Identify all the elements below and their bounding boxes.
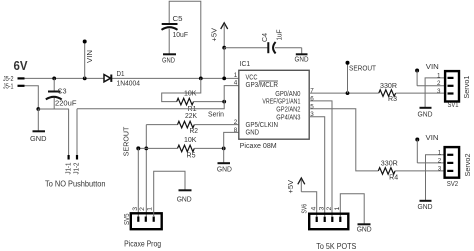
- svg-text:GND: GND: [418, 112, 433, 119]
- svg-text:SV5: SV5: [124, 213, 131, 225]
- svg-text:J5-2: J5-2: [3, 76, 14, 83]
- wire IC pin8 to GND: [224, 132, 239, 162]
- node SEROUT label point (lower): [124, 126, 141, 217]
- svg-text:SEROUT: SEROUT: [124, 126, 131, 156]
- svg-text:2: 2: [438, 157, 442, 164]
- svg-text:VIN: VIN: [426, 64, 439, 71]
- pin 2 number: [234, 119, 238, 126]
- wire R2 node down to SV5 pin2: [145, 125, 147, 217]
- svg-text:GP2/AN2: GP2/AN2: [276, 107, 300, 114]
- svg-text:SV1: SV1: [448, 102, 459, 109]
- ground (IC pin8): [217, 163, 232, 173]
- capacitor C4 1uF: [262, 30, 302, 54]
- svg-text:GND: GND: [162, 57, 175, 64]
- ground (J5/C3): [30, 131, 47, 143]
- svg-text:3: 3: [318, 206, 325, 210]
- svg-text:J5-1: J5-1: [3, 84, 14, 91]
- svg-text:GND: GND: [217, 167, 232, 174]
- pin 7 number: [310, 88, 314, 95]
- wire 6V rail: [25, 77, 239, 79]
- IC1 Picaxe 08M: [239, 61, 309, 150]
- svg-text:D1: D1: [117, 71, 125, 78]
- svg-text:10K: 10K: [184, 90, 197, 97]
- svg-text:2: 2: [437, 80, 441, 87]
- svg-text:C5: C5: [173, 16, 183, 23]
- connector J1-2: [74, 155, 81, 175]
- pin 1 number: [234, 72, 238, 79]
- svg-text:Servo1: Servo1: [464, 75, 471, 98]
- wire IC pin3 to SV6 pin3: [309, 117, 325, 217]
- svg-text:1N4004: 1N4004: [117, 81, 141, 88]
- node VIN junction on rail: [83, 77, 87, 81]
- svg-text:C4: C4: [262, 33, 269, 42]
- wire +5V to SV6 pin4: [301, 192, 316, 217]
- pin 3 number: [310, 111, 314, 118]
- svg-text:VCC: VCC: [246, 74, 258, 81]
- svg-text:Picaxe 08M: Picaxe 08M: [240, 143, 277, 150]
- node C3 junction on rail: [52, 77, 56, 81]
- svg-text:1uF: 1uF: [277, 30, 284, 41]
- pin 5 number: [310, 103, 314, 110]
- wire ground bus to J1-1: [38, 109, 68, 156]
- svg-text:3: 3: [437, 88, 441, 95]
- node SEROUT label point (top): [346, 61, 377, 93]
- svg-text:GND: GND: [295, 56, 309, 63]
- 6V supply label: [14, 59, 29, 73]
- svg-text:SV2: SV2: [447, 181, 459, 188]
- connector SV2: [438, 147, 472, 188]
- wire +5V down to rail: [223, 48, 225, 79]
- wire IC pin4 to Serin node to J1-2: [77, 86, 239, 119]
- svg-text:GND: GND: [418, 204, 433, 211]
- svg-text:2: 2: [326, 206, 333, 210]
- svg-text:IC1: IC1: [240, 61, 251, 68]
- svg-text:2: 2: [139, 207, 146, 211]
- svg-text:Servo2: Servo2: [465, 153, 472, 176]
- connector SV6: [302, 204, 357, 251]
- node R5/SV5 junction: [144, 147, 148, 151]
- svg-text:8: 8: [234, 127, 238, 134]
- svg-text:1: 1: [334, 206, 341, 210]
- connector SV5: [124, 207, 162, 249]
- svg-text:4: 4: [310, 206, 317, 210]
- svg-text:R5: R5: [187, 153, 196, 160]
- svg-text:GP0/AN0: GP0/AN0: [275, 91, 300, 98]
- wire IC pin6 to SV6 pin2: [309, 101, 332, 217]
- node +5V rail junction: [222, 77, 226, 81]
- connector J5-1: [3, 84, 25, 91]
- svg-text:3: 3: [132, 207, 139, 211]
- node R5/pin8 GND junction: [222, 147, 226, 151]
- connector SV1: [437, 71, 471, 109]
- svg-text:4: 4: [234, 80, 238, 87]
- svg-text:1: 1: [234, 72, 238, 79]
- node GND junction at J5-1: [36, 107, 40, 111]
- svg-text:2: 2: [234, 119, 238, 126]
- node C5 loop junction on rail: [199, 77, 203, 81]
- svg-text:10uF: 10uF: [173, 32, 189, 39]
- svg-text:To 5K POTS: To 5K POTS: [316, 242, 356, 251]
- resistor R5 10K: [138, 137, 223, 160]
- resistor R2 22K: [146, 113, 239, 135]
- resistor R4 330R: [378, 160, 444, 181]
- svg-text:GP3/MCLR: GP3/MCLR: [246, 82, 279, 89]
- svg-text:GND: GND: [177, 197, 192, 204]
- wire IC pin5 to R4: [309, 109, 378, 171]
- svg-text:Serin: Serin: [208, 112, 224, 119]
- svg-text:GND: GND: [30, 136, 47, 143]
- connector J1-1: [65, 155, 72, 175]
- power +5V arrow (bottom): [288, 178, 305, 194]
- power +5V arrow (top): [212, 23, 228, 48]
- ground (SV5): [177, 190, 192, 203]
- resistor R1 10K with feed from rail: [162, 78, 225, 112]
- capacitor C5 10uF with loop to rail: [162, 1, 201, 78]
- svg-text:1: 1: [438, 149, 442, 156]
- wire J5-1 junction down to ground: [37, 109, 39, 131]
- wire IC pin7 GP0 to SV1 pin3: [309, 92, 379, 94]
- wire +5V to C4: [224, 47, 268, 49]
- svg-text:1: 1: [147, 207, 154, 211]
- svg-text:22K: 22K: [185, 113, 197, 120]
- svg-text:GP4/AN3: GP4/AN3: [276, 114, 300, 121]
- svg-text:SV6: SV6: [302, 204, 309, 214]
- label To NO Pushbutton: [45, 180, 106, 189]
- diode D1 1N4004: [104, 71, 140, 88]
- wire J1-2 down: [76, 109, 78, 156]
- ground (C5): [162, 54, 176, 64]
- svg-text:330R: 330R: [380, 83, 397, 90]
- node R1/Serin junction: [222, 100, 226, 104]
- capacitor C3 220uF: [46, 78, 77, 109]
- pin 6 number: [310, 95, 314, 102]
- wire SV5 pin1 to GND: [154, 171, 185, 217]
- svg-text:R2: R2: [190, 128, 199, 135]
- node VIN label point (SV2): [415, 135, 438, 163]
- svg-text:J1-2: J1-2: [74, 162, 81, 174]
- ground (SV6): [357, 224, 372, 233]
- wire VIN to SV2 pin2: [417, 162, 444, 164]
- svg-text:+5V: +5V: [212, 28, 219, 42]
- svg-text:GP5/CLKIN: GP5/CLKIN: [246, 122, 279, 129]
- pin 8 number: [234, 127, 238, 134]
- svg-text:J1-1: J1-1: [65, 162, 72, 174]
- node VIN label point (SV1): [415, 64, 439, 86]
- wire SV1 pin1 to GND: [425, 78, 445, 107]
- wire J5-1 to ground junction: [25, 86, 39, 109]
- resistor R3 330R: [379, 83, 445, 103]
- svg-text:3: 3: [438, 165, 442, 172]
- ground (SV2): [418, 201, 433, 211]
- pin 4 number: [234, 80, 238, 87]
- svg-text:R3: R3: [388, 96, 397, 103]
- svg-text:GND: GND: [357, 227, 372, 234]
- svg-text:VREF/GP1/AN1: VREF/GP1/AN1: [262, 99, 300, 106]
- svg-text:+5V: +5V: [288, 180, 295, 194]
- svg-text:VIN: VIN: [426, 135, 439, 142]
- svg-text:220uF: 220uF: [55, 100, 77, 107]
- svg-text:Picaxe Prog: Picaxe Prog: [124, 240, 161, 249]
- svg-text:SEROUT: SEROUT: [349, 65, 377, 72]
- ground (C4): [295, 54, 309, 63]
- svg-text:10K: 10K: [184, 137, 197, 144]
- svg-text:1: 1: [437, 72, 441, 79]
- node VIN label point: [83, 40, 94, 79]
- connector J5-2: [3, 76, 25, 83]
- node SEROUT junction on pin7 wire: [346, 91, 350, 95]
- svg-text:GND: GND: [246, 130, 260, 137]
- svg-text:330R: 330R: [381, 160, 398, 167]
- wire SV6 pin1 to GND: [340, 194, 364, 224]
- svg-text:VIN: VIN: [87, 50, 94, 63]
- svg-text:6V: 6V: [14, 59, 29, 73]
- ground (SV1): [418, 108, 433, 119]
- svg-text:To NO Pushbutton: To NO Pushbutton: [45, 180, 106, 189]
- wire VIN to SV1 pin2: [417, 85, 445, 87]
- node +5V junction: [222, 46, 226, 50]
- wire SV2 pin1 to GND: [426, 155, 445, 200]
- svg-text:R4: R4: [389, 175, 398, 182]
- svg-text:C3: C3: [58, 88, 67, 95]
